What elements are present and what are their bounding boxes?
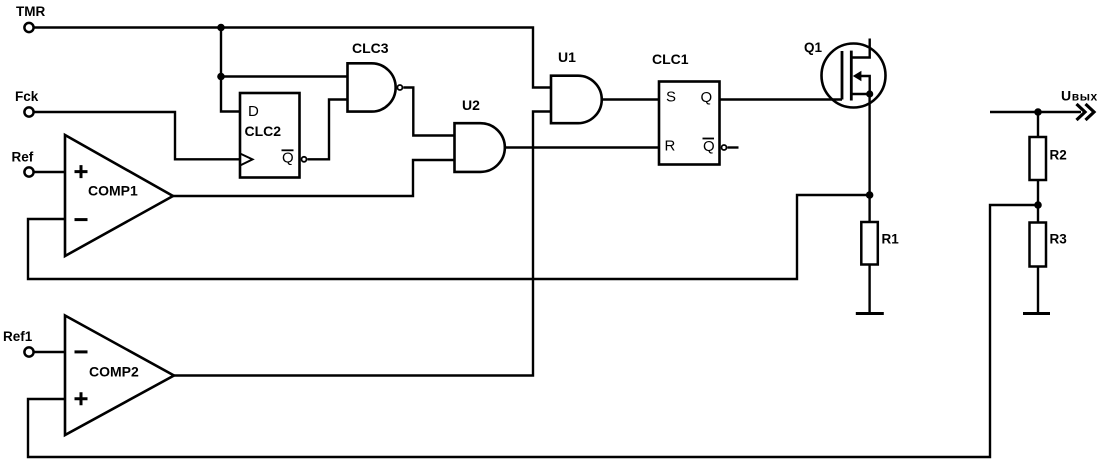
svg-text:U1: U1 (558, 49, 576, 65)
terminal TMR (16, 4, 45, 32)
svg-text:R1: R1 (882, 232, 900, 247)
svg-text:COMP2: COMP2 (89, 364, 139, 380)
terminal Fck (15, 89, 39, 117)
terminal Ref1 (3, 329, 34, 357)
AND gate U2 (455, 97, 505, 172)
svg-text:D: D (248, 103, 259, 120)
svg-text:Ref1: Ref1 (3, 329, 33, 344)
wire TMR branch down to CLC2 D input (221, 28, 240, 112)
node TMR branch (217, 24, 225, 32)
svg-text:CLC3: CLC3 (352, 40, 389, 56)
wire Q1 source down to R1 (868, 94, 870, 222)
wire Ref1 to COMP2 minus input (34, 351, 65, 353)
wire U2 output to CLC1 R input (505, 146, 659, 148)
wire CLC2 Qbar to CLC3 lower input (307, 100, 347, 160)
svg-text:Q1: Q1 (804, 40, 823, 55)
svg-text:U2: U2 (462, 97, 480, 113)
svg-text:R2: R2 (1050, 148, 1067, 163)
wire branch to CLC3 upper input (221, 75, 348, 77)
wire Ref to COMP1 plus input (34, 171, 65, 173)
node R2 R3 divider junction (1034, 201, 1042, 209)
wire R1 to ground (868, 265, 870, 314)
resistor R3 (1030, 223, 1068, 267)
transistor Q1 MOSFET (804, 39, 886, 108)
SR latch CLC1 (652, 51, 727, 165)
wire COMP1 minus feedback to R1 top (28, 195, 866, 279)
svg-text:COMP1: COMP1 (88, 183, 138, 199)
ground under R3 (1023, 312, 1050, 315)
wire COMP1 output to U2 lower input (173, 160, 455, 196)
wire R2 top (1037, 112, 1039, 137)
node Uvyh R2 junction (1034, 108, 1042, 116)
wire CLC3 output to U2 upper input (403, 88, 454, 136)
svg-text:Uвых: Uвых (1061, 88, 1098, 104)
wire Fck to CLC2 clock (34, 112, 240, 159)
flip-flop CLC2 (240, 93, 307, 178)
output arrow Uvyh (1061, 88, 1098, 121)
wire COMP2 output to U1 lower input (174, 112, 551, 376)
NAND gate CLC3 (348, 40, 403, 112)
wire CLC1 Q output to Q1 gate (720, 98, 843, 100)
svg-text:Fck: Fck (15, 89, 39, 104)
wire U1 output to CLC1 S input (602, 98, 659, 100)
node branch to CLC3 (217, 73, 225, 81)
svg-text:S: S (666, 89, 676, 106)
wire COMP2 plus feedback to R2 R3 divider tap (28, 205, 1038, 457)
svg-text:CLC1: CLC1 (652, 51, 689, 67)
op-amp COMP2 (65, 316, 174, 436)
svg-text:CLC2: CLC2 (245, 123, 282, 139)
wire TMR to U1 upper input (34, 28, 551, 88)
resistor R1 (861, 222, 899, 265)
svg-text:R3: R3 (1050, 232, 1068, 247)
svg-text:Q: Q (703, 138, 715, 155)
svg-text:Ref: Ref (12, 150, 34, 165)
resistor R2 (1030, 137, 1067, 180)
ground under R1 (856, 312, 884, 315)
svg-text:Q: Q (701, 89, 713, 106)
terminal Ref (12, 150, 34, 177)
op-amp COMP1 (65, 135, 173, 256)
svg-text:Q: Q (282, 150, 294, 167)
wire R2 bottom to R3 top (1037, 180, 1039, 223)
svg-text:R: R (665, 138, 676, 155)
node Q1 source R1 feedback junction (866, 191, 874, 199)
svg-text:TMR: TMR (16, 4, 45, 19)
wire CLC1 Qbar stub (727, 146, 738, 148)
wire Uvyh output line (990, 111, 1081, 113)
wire R3 to ground (1037, 267, 1039, 314)
AND gate U1 (551, 49, 602, 123)
